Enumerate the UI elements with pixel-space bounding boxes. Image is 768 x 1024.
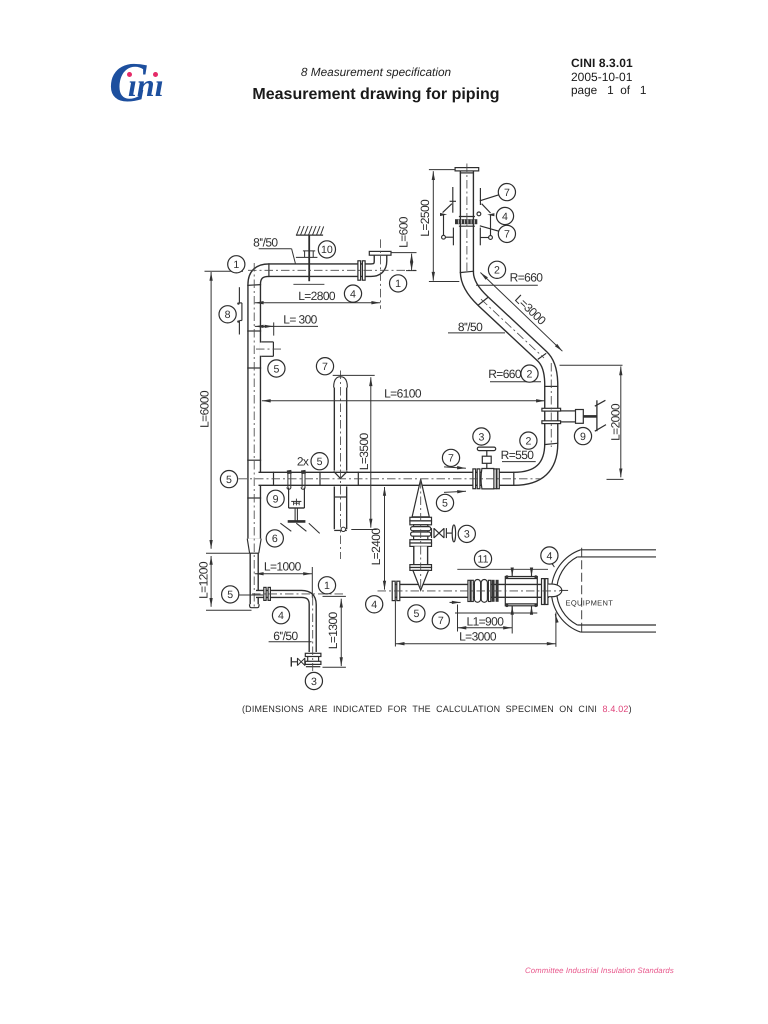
balloon item 4 at (549.4,555.5): [541, 547, 558, 564]
svg-text:7: 7: [438, 615, 444, 627]
CINI logo: [103, 55, 173, 105]
header centre: [226, 65, 526, 79]
svg-text:L=2800: L=2800: [298, 289, 336, 303]
drain valve right of bellows drop: [431, 528, 433, 538]
balloon item 7 at (325,366.2): [316, 358, 333, 375]
balloon item 7 at (451,457.9): [442, 449, 459, 466]
dimension L=3500: [370, 377, 372, 527]
bellows on bottom tee pipe: [468, 580, 470, 601]
balloon item 4 at (281,615.2): [272, 607, 289, 624]
protection sleeve box: [505, 577, 537, 606]
balloon item 5 at (445,502.9): [436, 494, 453, 511]
svg-text:6: 6: [272, 533, 278, 545]
svg-text:L=2400: L=2400: [369, 528, 383, 566]
node: centreline bottom tee pipe: [378, 590, 561, 592]
svg-text:5: 5: [227, 589, 233, 601]
svg-text:3: 3: [311, 676, 317, 688]
label leaders: [259, 248, 292, 250]
svg-text:2x: 2x: [297, 454, 309, 468]
weld joint on top pipe at elbow: [268, 263, 270, 277]
balloon item 3 at (466.8,533.9): [458, 525, 475, 542]
balloon item 7 at (506.9,233.9): [498, 225, 515, 242]
balloon item 9 at (275.6,498.8): [267, 490, 284, 507]
balloon item 1 at (398.1,283.4): [390, 275, 407, 292]
node: centreline side stub: [256, 348, 282, 350]
svg-text:L=1000: L=1000: [264, 560, 302, 574]
joint mark 8 beside left pipe: [237, 287, 242, 334]
weld joint top-right vertical at bend: [460, 271, 474, 272]
svg-text:L= 300: L= 300: [283, 312, 317, 326]
dimension L=1000: [255, 573, 312, 575]
weld joints on left vertical pipe: [247, 284, 261, 287]
dimension L=3000 diagonal: [480, 273, 562, 352]
note under drawing: [242, 704, 632, 714]
balloon item 2 at (529.5,373.6): [521, 365, 538, 382]
weld joint on 3500 stub: [335, 496, 346, 498]
balloon item 9 at (583,436.1): [574, 428, 591, 445]
flange pair on bottom 6in branch: [264, 587, 266, 600]
balloon item 3 at (481.4,436.5): [473, 428, 490, 445]
svg-text:7: 7: [504, 229, 510, 241]
svg-text:L=3000: L=3000: [459, 630, 497, 644]
svg-text:R=550: R=550: [501, 448, 535, 462]
node: centreline riser elbow: [380, 239, 382, 309]
svg-text:6''/50: 6''/50: [273, 629, 298, 643]
hanger rod: [308, 235, 310, 281]
leaders to balloons: [480, 195, 499, 201]
node: centreline top pipe: [248, 269, 416, 271]
svg-text:10: 10: [321, 244, 333, 256]
riser top flange: [369, 251, 391, 255]
svg-text:L1=900: L1=900: [467, 614, 505, 628]
flange pair on top pipe: [358, 261, 361, 280]
node: centreline left vertical pipe: [253, 263, 255, 608]
nozzle bullet: [548, 584, 562, 597]
footer: [525, 966, 674, 975]
rod clamp: [296, 256, 318, 258]
balloon item 7 at (506.9,192.1): [498, 184, 515, 201]
balloon item 6 at (274.8,538.4): [266, 530, 283, 547]
balloon item 7 at (440.8,620.4): [432, 612, 449, 629]
pedestal and base: [294, 508, 296, 520]
dimension L=2500: [432, 171, 434, 281]
dimension L=1200: [210, 556, 212, 607]
vertical drop with expansion bellows from mid pipe to bottom tee: [410, 479, 432, 590]
balloon item 5 at (416.4,613.4): [408, 605, 425, 622]
balloon item 1 at (327,585.3): [318, 577, 335, 594]
svg-text:4: 4: [350, 288, 356, 300]
ground hatch: [280, 523, 319, 533]
balloon item 4 at (374.2,604.3): [366, 596, 383, 613]
top flange of top-right vertical: [455, 168, 479, 171]
header right: [571, 56, 633, 70]
node: centreline drop assembly: [420, 480, 422, 589]
balloon item 5 at (230.2,594.4): [222, 586, 239, 603]
node: centreline bottom branch: [252, 593, 344, 595]
svg-text:2: 2: [494, 265, 500, 277]
node: centreline diagonal: [481, 299, 544, 358]
svg-text:7: 7: [322, 361, 328, 373]
weld joints on diagonal: [478, 297, 489, 306]
svg-text:4: 4: [546, 550, 552, 562]
balloon item 5 at (319.6,461.2): [311, 453, 328, 470]
svg-text:R=660: R=660: [510, 271, 544, 285]
svg-text:8''/50: 8''/50: [458, 320, 483, 334]
reducer on left vertical pipe: [247, 539, 261, 554]
dimension L1=900: [458, 627, 513, 629]
small valve left: [290, 657, 292, 666]
ceiling hatching: [296, 234, 323, 236]
balloon item 1 at (236.3,264.3): [228, 256, 245, 273]
svg-text:L=6100: L=6100: [384, 386, 422, 400]
svg-text:4: 4: [371, 599, 377, 611]
svg-text:1: 1: [324, 580, 330, 592]
wire: bottom tee horizontal pipe to equipment: [392, 584, 549, 598]
vessel shell arcs: [551, 550, 580, 632]
balloon item 2 at (528.4,440.6): [520, 432, 537, 449]
svg-text:L=1200: L=1200: [197, 561, 211, 599]
svg-text:L=2000: L=2000: [608, 403, 622, 441]
dimension L=3000 bottom: [396, 643, 556, 645]
svg-text:8''/50: 8''/50: [253, 235, 278, 249]
dimension L=2000: [620, 366, 622, 477]
wire: top-left pipe run 8in: riser elbow, top horizontal, left elbow, left vertical: [254, 254, 380, 538]
svg-text:2: 2: [525, 435, 531, 447]
balloon item 10 at (326.9,249.4): [318, 241, 335, 258]
side stub on left pipe (L=300): [260, 343, 273, 356]
svg-text:9: 9: [580, 431, 586, 443]
dimension L=2400: [384, 487, 386, 590]
dimension L=1300: [340, 599, 342, 666]
balloon item 2 at (497,269.8): [488, 261, 505, 278]
ticks above/below sleeve: [511, 569, 513, 576]
svg-text:3: 3: [464, 529, 470, 541]
dimension L=6000: [210, 272, 212, 549]
svg-text:5: 5: [317, 456, 323, 468]
right vent piping: [479, 188, 481, 205]
weld joints on mid pipe: [273, 472, 275, 486]
svg-text:11: 11: [478, 554, 489, 566]
node: centreline mid pipe: [239, 478, 541, 480]
flanged end with blind below bottom-left drop: [305, 653, 321, 656]
node: centreline 3500 pipe: [340, 371, 342, 560]
svg-text:L=3000: L=3000: [512, 292, 549, 328]
svg-text:4: 4: [502, 211, 508, 223]
balloon item 4 at (505,216): [496, 207, 513, 224]
left vent piping: [452, 187, 454, 213]
trapeze bracket: [288, 488, 290, 508]
balloon item 5 at (229,479.1): [220, 471, 237, 488]
dimension L=600: [411, 254, 413, 271]
dimension L=2800: [255, 302, 380, 304]
leader arrows at valve 7/5: [444, 467, 466, 468]
node: centreline bottom drop: [312, 597, 314, 671]
wire: bottom 6in branch and drop elbow: [256, 594, 313, 652]
pipe clamp bolts 2x5: [288, 471, 305, 488]
svg-text:L=1300: L=1300: [326, 611, 340, 649]
balloon item 4 at (353,293.6): [344, 285, 361, 302]
wire: main run - mid horizontal pipe, R550 bend, vertical, R660 bend, diagonal, R660 bend, top-right vertical: [259, 170, 552, 478]
svg-text:L=6000: L=6000: [197, 390, 211, 428]
balloon item 8 at (227.6,314.3): [219, 306, 236, 323]
svg-text:L=600: L=600: [397, 216, 411, 248]
svg-text:4: 4: [278, 610, 284, 622]
balloon item 3 at (313.9,681): [305, 672, 322, 689]
svg-text:3: 3: [478, 431, 484, 443]
node: centreline right vertical: [550, 363, 552, 447]
svg-text:L=2500: L=2500: [418, 199, 432, 237]
svg-text:EQUIPMENT: EQUIPMENT: [566, 598, 614, 607]
weld joints on right vertical: [544, 385, 558, 387]
svg-text:7: 7: [448, 453, 454, 465]
svg-text:5: 5: [413, 608, 419, 620]
flange bars left end of bottom tee pipe: [392, 581, 395, 600]
svg-text:R=660: R=660: [488, 367, 522, 381]
svg-text:7: 7: [504, 187, 510, 199]
svg-text:5: 5: [226, 474, 232, 486]
balloon item 11 at (483,558.9): [474, 550, 491, 567]
node: centreline top-right vertical: [466, 164, 468, 274]
svg-text:5: 5: [273, 363, 279, 375]
vertical 3500 pipe with dome top: [334, 377, 348, 532]
flange pair before equipment nozzle: [542, 579, 545, 605]
svg-text:1: 1: [233, 259, 239, 271]
svg-text:2: 2: [527, 368, 533, 380]
dimension L=6100: [262, 400, 545, 402]
svg-text:1: 1: [395, 278, 401, 290]
clamp flange bars on right vertical (anchor): [542, 408, 561, 411]
flanged joint w. gasket on top-right vertical: [459, 216, 475, 218]
valve on mid pipe with handwheel: [473, 469, 476, 489]
dimension L=300: [255, 325, 318, 327]
svg-text:9: 9: [273, 494, 279, 506]
svg-text:5: 5: [442, 498, 448, 510]
wire: left 6in pipe below reducer: [250, 553, 260, 608]
svg-text:L=3500: L=3500: [357, 432, 371, 470]
balloon item 5 at (276.4,368.5): [268, 360, 285, 377]
svg-text:8: 8: [225, 309, 231, 321]
